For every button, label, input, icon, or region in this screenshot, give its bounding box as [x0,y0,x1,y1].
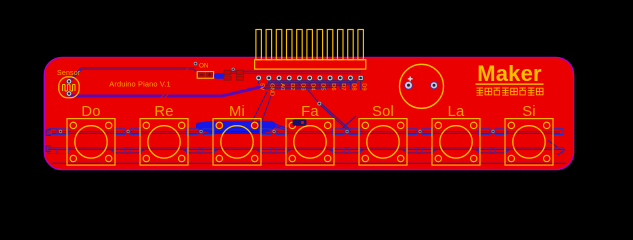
pad J1 pin 8 (D6) [327,75,333,81]
wire: pour tail to SW4 left pad [276,125,288,131]
svg-text:Mi: Mi [229,104,245,120]
pad left of SW1 top row [48,129,58,135]
wire: bundle fan-out to pour [253,92,273,121]
svg-text:La: La [448,104,465,120]
pad J1 pin 10 (D8) [348,75,354,81]
svg-text:D2: D2 [289,83,295,90]
via in gap R6 [491,130,494,133]
wire cluster at SW4 top-left [293,119,307,125]
connector J1 pin shrouds [256,30,364,60]
svg-text:GND: GND [269,83,275,96]
wire: thick GND band from sensor to header [69,86,264,96]
wire: lower-row jog [476,150,510,154]
svg-text:D6: D6 [330,83,336,90]
hatch marks on band [161,94,169,98]
wire: trace bundle under header J1 [270,80,357,82]
pushbutton SW2 (Re) [130,104,198,165]
via in gap R5 [418,130,421,133]
pushbutton SW4 (Fa) [276,104,344,165]
wire: lower-row jog [330,150,364,154]
pad right of SW7 top row [553,129,563,135]
LDR sensor R8 [59,77,79,98]
connector J1 body [255,60,366,69]
pad J1 pin 4 (D2) [286,75,292,81]
pad sensor top [66,79,71,84]
wire: header pad stubs [258,81,260,84]
svg-text:Arduino Piano V.1: Arduino Piano V.1 [109,80,170,89]
pad buzzer + [404,81,413,90]
svg-text:Sol: Sol [372,104,394,120]
wire: via to SW5 diagonal pair [319,103,350,131]
pad J1 pin 2 (GND) [266,75,272,81]
wire: lower-row jog [111,150,145,154]
pad J1 pin 6 (D4) [307,75,313,81]
svg-text:ON: ON [199,63,209,70]
svg-text:Re: Re [154,104,173,120]
pad J1 pin 9 (D7) [337,75,343,81]
pushbutton SW5 (Sol) [349,104,417,165]
label + [408,77,413,82]
wire: upper signal bus through switches [52,131,560,133]
svg-text:D8: D8 [350,83,356,90]
board outline (PCB edge) [44,57,573,169]
copper pour (bottom layer, net GND) near SW3 [196,121,276,134]
wire: SW7 to corner diagonal [548,141,565,156]
logo underline [476,83,544,85]
wire: 5V line from sensor to LED [70,68,199,82]
via at SW4 right [317,102,321,106]
resistor R7 pads [237,70,244,74]
pad J1 pin 3 (A0) [276,75,282,81]
pushbutton SW7 (Si) [495,104,563,165]
svg-text:D3: D3 [299,83,305,90]
pad right of SW7 bottom row [553,148,563,154]
wire: lower-row jog [257,150,291,154]
pad buzzer - [430,81,438,89]
pad J1 pin 7 (D5) [317,75,323,81]
via left of SW1 [59,130,62,133]
wire: bottom GND return along board edge [52,162,566,164]
svg-text:Maker: Maker [477,61,542,86]
pad left of SW1 bottom row [48,148,58,154]
wire: bundle to via near SW4 [308,90,319,103]
svg-text:5V: 5V [258,83,264,90]
pushbutton SW6 (La) [422,104,490,165]
wire: blue segment right of D1 [214,73,225,79]
svg-text:D9: D9 [360,83,366,90]
via in gap R3 [272,130,275,133]
svg-text:D4: D4 [309,83,315,91]
pushbutton SW1 (Do) [57,104,125,165]
via in gap R4 [345,130,348,133]
via near ON [194,62,198,66]
wire: left edge stubs [46,130,51,136]
wire: rail above header pads [226,71,361,73]
svg-text:D5: D5 [320,83,326,90]
wire: faint bus inside pour [211,132,263,134]
pad sensor bottom [66,91,71,96]
label Chinese studio name [477,88,544,96]
wire: lower-row jog [403,150,437,154]
pad J1 pin 1 (5V) [256,75,262,81]
svg-text:Si: Si [522,104,536,120]
via in gap R2 [199,130,202,133]
svg-text:A0: A0 [279,83,285,90]
svg-text:Sensor: Sensor [57,70,81,77]
LED D1 [197,72,213,79]
capacitor C1 pads [224,70,231,74]
via in gap R1 [126,130,129,133]
svg-text:Fa: Fa [301,104,319,120]
svg-text:Do: Do [81,104,100,120]
pushbutton SW3 (Mi) [203,104,271,165]
pad J1 pin 5 (D3) [297,75,303,81]
via near C1 [232,68,235,71]
wire: lower signal bus through switches [48,147,564,149]
wire: crossing diagonal [341,116,356,130]
buzzer BZ1 outline [400,64,444,108]
svg-text:D7: D7 [340,83,346,90]
wire: lower-row jog [184,150,218,154]
pad J1 pin 11 (D9) [358,75,363,80]
